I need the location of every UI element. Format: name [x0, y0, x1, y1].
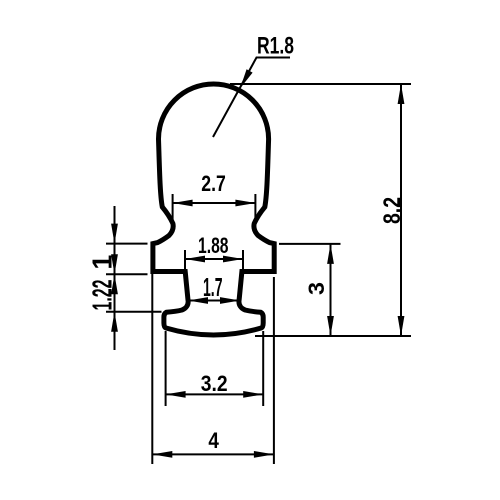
dimension 3.2: [166, 331, 264, 406]
svg-text:3.2: 3.2: [201, 371, 228, 396]
dimension 2.7: [173, 171, 256, 222]
dimension 1.88: [185, 233, 243, 270]
svg-text:2.7: 2.7: [201, 171, 226, 196]
dimension 1.22: [87, 254, 162, 331]
svg-text:8.2: 8.2: [379, 197, 406, 224]
leader R1.8: [213, 33, 294, 138]
dimension 3: [279, 244, 341, 336]
svg-text:4: 4: [208, 428, 219, 453]
svg-text:1.88: 1.88: [198, 233, 229, 258]
dimension 1: [87, 224, 148, 295]
svg-text:1.22: 1.22: [87, 280, 118, 311]
profile outline: [153, 84, 274, 335]
dimension 4: [152, 274, 274, 464]
svg-text:1.7: 1.7: [203, 272, 223, 302]
dimension 8.2: [230, 84, 411, 336]
dimension 1.7: [188, 272, 240, 304]
left dimension line: [114, 206, 116, 350]
svg-text:3: 3: [304, 282, 329, 295]
svg-text:R1.8: R1.8: [257, 33, 294, 60]
